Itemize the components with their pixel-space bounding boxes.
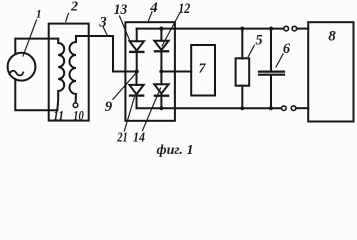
bottom rail junction dot at diode 14 (159, 106, 163, 110)
leader for label 4 (148, 12, 152, 22)
AC source G1 circle (8, 53, 36, 81)
diode 12 lead top (160, 29, 162, 41)
leader for label 9 (113, 73, 136, 100)
leader for label 2 (66, 13, 69, 21)
diode 13 triangle (130, 41, 144, 50)
diode 14 bottom lead (160, 96, 162, 109)
capacitor 6 junction dot bottom (269, 106, 273, 110)
svg-text:8: 8 (328, 28, 336, 44)
leader for label 12 (162, 14, 180, 47)
svg-text:14: 14 (133, 131, 145, 146)
svg-text:9: 9 (105, 99, 112, 115)
svg-text:2: 2 (70, 0, 78, 15)
transformer T1 box (49, 24, 89, 121)
diode 12 triangle (154, 41, 168, 50)
svg-text:4: 4 (149, 0, 158, 16)
capacitor 6 top lead (270, 29, 272, 71)
svg-text:1: 1 (36, 9, 42, 21)
wire source top (15, 39, 58, 55)
diode 12 top junction dot (159, 27, 163, 31)
diode 13 lead top (136, 29, 138, 42)
leader for label 1 (23, 20, 37, 56)
resistor 5 top lead (241, 29, 243, 59)
svg-text:7: 7 (199, 62, 207, 77)
wire source bottom (15, 79, 57, 110)
wire to load bottom (296, 107, 308, 109)
resistor 5 body (236, 58, 250, 85)
transformer secondary winding (70, 36, 76, 103)
capacitor 6 bottom lead (270, 76, 272, 109)
diode 12 to mid lead (160, 51, 162, 71)
leader for label 21 (124, 98, 134, 132)
leader for label 3 (103, 27, 107, 36)
diode 21 bottom lead (136, 96, 138, 109)
diode 14 triangle (154, 84, 168, 93)
terminal pair bottom (282, 106, 287, 111)
diode 21 bar (130, 94, 143, 96)
capacitor 6 bottom plate (259, 74, 284, 76)
DC plus rail top (137, 28, 284, 30)
svg-text:5: 5 (255, 32, 262, 48)
leader for label 6 (276, 54, 283, 67)
wire to load top (297, 28, 308, 30)
resistor 5 bottom lead (241, 86, 243, 109)
svg-text:6: 6 (283, 41, 291, 57)
svg-text:3: 3 (98, 15, 106, 31)
capacitor 6 junction dot top (269, 27, 273, 31)
terminal pair top (284, 26, 289, 31)
diode 13 bar (130, 51, 143, 53)
wire bridge to block 7 (161, 71, 191, 73)
mid right junction dot (159, 69, 163, 73)
svg-text:фиг. 1: фиг. 1 (157, 143, 194, 157)
leader for label 14 (143, 88, 161, 131)
transformer primary winding (57, 39, 64, 111)
svg-text:11: 11 (53, 108, 64, 123)
svg-text:13: 13 (114, 2, 128, 18)
svg-text:12: 12 (178, 1, 190, 17)
block 7 box (191, 45, 215, 96)
wire 3 secondary to bridge (76, 36, 137, 72)
diode 13 to node 9 lead (136, 52, 138, 72)
diode 21 lead (136, 72, 138, 85)
leader for label 13 (120, 16, 131, 42)
svg-text:10: 10 (73, 108, 84, 123)
bridge unit 4 box (125, 22, 174, 121)
resistor 5 junction dot top (240, 27, 244, 31)
diode 14 bar (155, 95, 168, 97)
DC minus rail bottom (137, 107, 281, 109)
terminal 10 circle (73, 103, 78, 108)
capacitor 6 top plate (259, 70, 284, 72)
diode 12 bar (155, 50, 168, 52)
load block 8 box (308, 22, 353, 121)
diode 14 lead (160, 72, 162, 85)
diode 21 triangle (129, 85, 143, 94)
svg-text:21: 21 (116, 130, 127, 145)
sine symbol inside source (10, 71, 24, 76)
leader for label 5 (248, 45, 254, 56)
resistor 5 junction dot bottom (240, 106, 244, 110)
node 9 junction dot (135, 69, 139, 73)
